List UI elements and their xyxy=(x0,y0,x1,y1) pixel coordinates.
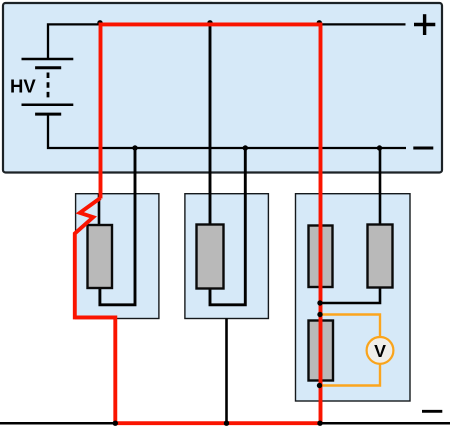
wire R3c bottom lead xyxy=(319,379,322,387)
wire unit2 case to bottom return rail xyxy=(225,319,228,424)
node C voltmeter bottom tap xyxy=(317,383,322,388)
wire battery positive to + rail xyxy=(48,24,406,59)
resistor R1 xyxy=(88,225,113,288)
battery HV cell2 short plate xyxy=(35,113,61,116)
battery HV cell1 long plate xyxy=(22,58,74,61)
voltmeter leads (orange) across R3c xyxy=(320,315,380,386)
node A R3a/R3b junction xyxy=(317,300,322,305)
divider unit 1 enclosure xyxy=(76,194,159,319)
node − rail to unit1 xyxy=(132,145,137,150)
node + rail junction (red tap) xyxy=(97,20,102,25)
wire unit3 R3b bottom to node A xyxy=(321,286,381,303)
node B voltmeter top tap xyxy=(317,312,322,317)
bottom return rail xyxy=(0,422,450,425)
wire battery negative to − rail xyxy=(48,115,406,149)
resistor R3a xyxy=(309,226,333,288)
divider unit 3 enclosure xyxy=(296,194,411,401)
wire unit2 resistor R2 top lead from + rail xyxy=(209,24,212,228)
battery HV cell2 long plate xyxy=(22,104,74,107)
node + rail junction R2 xyxy=(207,20,212,25)
wire unit3 resistor R3b top lead from − rail xyxy=(379,148,382,228)
resistor R2 xyxy=(197,225,224,289)
node bottom rail unit2 xyxy=(224,421,229,426)
resistor R3b xyxy=(368,225,393,288)
node bottom rail red right xyxy=(317,421,322,426)
minus terminal symbol xyxy=(413,147,433,150)
divider unit 2 enclosure xyxy=(185,194,269,319)
battery HV cell1 short plate xyxy=(35,66,61,69)
node + rail junction unit3 xyxy=(317,20,322,25)
node − rail to unit2 xyxy=(243,145,248,150)
voltmeter U1 body xyxy=(367,337,394,364)
node − rail to unit3 xyxy=(377,145,382,150)
plus terminal symbol xyxy=(414,14,435,35)
wire unit1 resistor R1 top lead xyxy=(98,194,101,228)
wire unit1 R1 bottom loop to − rail xyxy=(100,148,135,305)
bottom rail minus label xyxy=(422,410,442,413)
red fault wire: + rail overlay and drop through unit 3 xyxy=(101,24,321,423)
wire R3a bottom / node A / node B / R3c top xyxy=(319,286,322,322)
battery dashed link (more cells) xyxy=(47,73,50,101)
red flashover arc zigzag and return path along bottom xyxy=(75,198,320,423)
wire unit2 R2 bottom loop to − rail xyxy=(210,148,245,305)
node bottom rail red left xyxy=(113,421,118,426)
HV supply enclosure xyxy=(3,3,442,173)
svg-text:HV: HV xyxy=(10,76,36,97)
svg-text:V: V xyxy=(374,341,386,361)
resistor R3c xyxy=(309,321,334,381)
